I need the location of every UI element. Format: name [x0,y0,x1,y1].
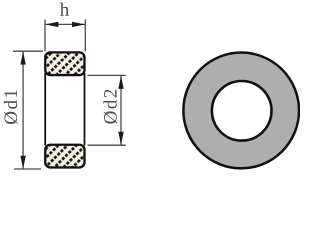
dimension h: right arrowhead [72,22,85,27]
dimension h: left extension line [44,20,46,52]
dimension d2: bottom arrowhead [118,132,123,145]
front view: outer ring (gray annulus) [183,53,299,169]
dimension d1: top extension line [13,50,43,52]
dimension h: right extension line [84,20,86,52]
dimension d2: top arrowhead [118,76,123,89]
wire left silhouette edge of section [44,73,46,146]
dimension d1: top arrowhead [20,52,25,65]
dimension d1: dimension line [22,52,24,169]
dimension d1: bottom extension line [14,168,41,170]
dimension d2: dimension line [120,76,122,145]
label Ød2 (rotated) [103,90,117,124]
dimension d1: bottom arrowhead [20,156,25,169]
dimension h: left arrowhead [45,22,58,27]
front view: inner hole [212,81,272,141]
label h [60,3,69,16]
top hatched cross-section area [45,52,84,75]
label Ød1 (rotated) [4,90,18,124]
bottom hatched cross-section area [45,145,84,168]
wire right silhouette edge of section [84,73,86,146]
dimension d2: bottom extension line [88,144,126,146]
dimension h: dimension line [45,23,85,25]
dimension d2: top extension line [88,74,126,76]
